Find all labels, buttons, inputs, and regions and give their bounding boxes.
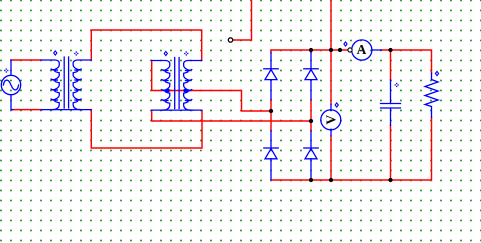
svg-text:A: A <box>357 42 367 57</box>
svg-text:V: V <box>324 115 339 125</box>
